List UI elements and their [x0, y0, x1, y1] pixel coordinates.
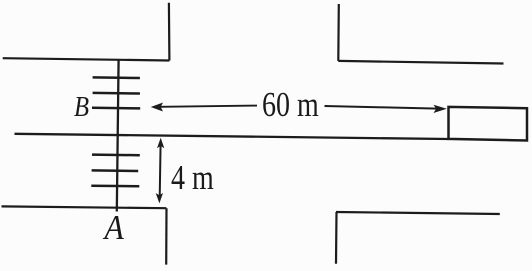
upper crosswalk hash 1 — [93, 76, 140, 79]
top-right block vertical curb — [337, 4, 340, 61]
60 m arrow right head — [434, 105, 447, 113]
60 m arrow shaft right segment — [325, 106, 439, 109]
4 m arrow top head — [157, 138, 164, 148]
top-right block horizontal curb — [338, 61, 503, 64]
main road centre line — [15, 134, 449, 139]
lower crosswalk hash 1 — [92, 153, 140, 156]
lower crosswalk hash 2 — [92, 169, 139, 172]
4 m arrow shaft — [159, 143, 162, 198]
bottom-left block horizontal curb — [2, 206, 167, 208]
crossing centre vertical line through A and B — [117, 60, 119, 212]
top-left block vertical curb — [168, 3, 171, 61]
car rectangle — [449, 107, 528, 141]
lower crosswalk hash 3 — [91, 184, 139, 187]
bottom-right block horizontal curb — [336, 212, 500, 214]
svg-text:A: A — [103, 209, 125, 248]
60 m arrow shaft left segment — [160, 106, 257, 107]
svg-text:4 m: 4 m — [171, 158, 214, 197]
svg-text:B: B — [74, 90, 89, 122]
upper crosswalk hash 2 — [93, 92, 140, 95]
top-left block horizontal curb — [3, 58, 170, 60]
svg-text:60 m: 60 m — [262, 85, 319, 124]
bottom-left block vertical curb — [165, 208, 168, 264]
60 m arrow left head — [151, 103, 163, 112]
bottom-right block vertical curb — [335, 212, 338, 264]
4 m arrow bottom head — [156, 193, 163, 203]
upper crosswalk hash 3 at B — [92, 107, 140, 110]
